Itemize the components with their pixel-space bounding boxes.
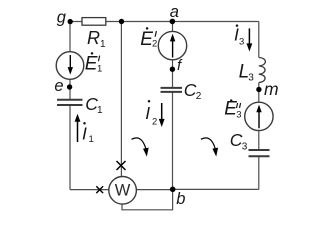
resistor R1 xyxy=(82,18,106,26)
loop arrow (mesh 3, curved) xyxy=(201,138,215,149)
wire wattmeter right to b xyxy=(136,189,172,191)
wire bottom left to wattmeter xyxy=(70,189,109,191)
wattmeter W xyxy=(109,177,137,205)
wire left branch g to E1 xyxy=(69,22,71,52)
svg-text:g: g xyxy=(57,9,67,27)
source E1 arrow (down) xyxy=(68,55,73,75)
wire E3 to C3 xyxy=(258,131,260,150)
svg-text:R: R xyxy=(87,28,100,48)
node m xyxy=(256,87,261,92)
wire C3 down to bottom rail xyxy=(258,156,260,189)
wire E1 to e to C1 xyxy=(69,79,71,99)
node a xyxy=(170,19,176,25)
svg-text:1: 1 xyxy=(100,39,106,50)
svg-text:1: 1 xyxy=(97,105,103,116)
svg-text:3: 3 xyxy=(239,37,244,48)
svg-text:2: 2 xyxy=(152,38,157,49)
svg-text:e: e xyxy=(54,77,63,95)
current I3 arrow xyxy=(247,28,253,51)
inductor L3 xyxy=(259,58,266,83)
capacitor C2 xyxy=(161,88,183,92)
wire top rail (R1 to a to top-right corner) xyxy=(106,21,259,23)
source E2 circle xyxy=(158,31,186,59)
wire top rail left (g to R1) xyxy=(70,21,82,23)
wattmeter polarity mark (top, x) xyxy=(117,161,126,170)
source E2 arrow (up) xyxy=(170,34,175,58)
wire C1 down to bottom-left corner xyxy=(69,105,71,190)
svg-text:I: I xyxy=(82,124,87,144)
svg-text:b: b xyxy=(176,190,185,208)
wire right branch upper (corner to L3) xyxy=(258,22,260,58)
wire C2 down to b xyxy=(172,92,174,189)
wire E2 to f to C2 xyxy=(172,60,174,88)
wire L3 to E3 xyxy=(258,83,260,103)
svg-text:1: 1 xyxy=(89,134,94,145)
svg-text:3: 3 xyxy=(242,141,248,152)
source E3 (U3) circle xyxy=(245,102,273,130)
node f xyxy=(170,67,175,72)
svg-text:2: 2 xyxy=(152,117,157,128)
node e xyxy=(67,84,72,89)
svg-text:m: m xyxy=(264,79,279,99)
node g xyxy=(68,19,73,24)
svg-text:3: 3 xyxy=(236,109,241,120)
node b xyxy=(170,187,176,193)
svg-text:3: 3 xyxy=(248,73,254,84)
svg-text:a: a xyxy=(170,3,179,21)
loop arrow (mesh 2, curved) xyxy=(132,138,146,149)
node junction after R1 xyxy=(119,19,124,24)
svg-text:I: I xyxy=(145,103,150,123)
wattmeter polarity mark (left, x) xyxy=(96,186,103,193)
wire wattmeter top feed (junction after R1 down to W) xyxy=(120,22,122,177)
svg-text:W: W xyxy=(115,182,131,200)
wire bottom rail right (corner to b) xyxy=(173,188,259,190)
svg-text:E: E xyxy=(85,53,98,74)
svg-text:1: 1 xyxy=(97,63,102,74)
wire wattmeter bottom U loop xyxy=(122,189,173,209)
wire middle branch a to E2 xyxy=(172,22,174,32)
current I2 arrow xyxy=(159,103,165,127)
capacitor C1 xyxy=(57,100,83,105)
svg-text:2: 2 xyxy=(196,91,202,102)
source E3 arrow (up) xyxy=(256,105,261,129)
source E1 circle xyxy=(56,52,84,80)
capacitor C3 xyxy=(249,150,270,156)
current I1 arrow xyxy=(75,114,81,142)
